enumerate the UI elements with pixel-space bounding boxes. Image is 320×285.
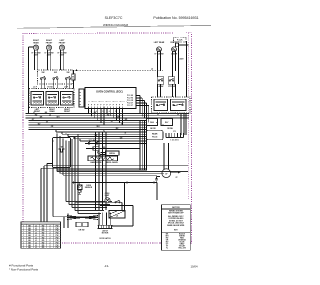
- svg-text:240V: 240V: [34, 54, 39, 57]
- right infinite switch B: [171, 99, 187, 110]
- latch crossing wires: [67, 216, 98, 220]
- svg-text:P1-2 RD: P1-2 RD: [127, 98, 134, 100]
- relay coil symbol: [59, 149, 65, 152]
- element circuit wires: [44, 165, 188, 167]
- svg-text:P1-5 VT: P1-5 VT: [127, 105, 133, 107]
- svg-text:BROIL 3400W: BROIL 3400W: [106, 161, 118, 164]
- svg-text:240V: 240V: [47, 54, 52, 57]
- surface element unit 1 lead wires: [33, 50, 35, 70]
- lamp switch: [115, 202, 116, 203]
- oven control EOC box: [85, 88, 136, 109]
- surface unit switch 1 lower leads: [40, 84, 42, 89]
- right surface element 2: [172, 47, 177, 52]
- oven lamp: [76, 201, 122, 203]
- warmer pilot component: [176, 43, 179, 46]
- svg-text:CF: CF: [175, 177, 177, 179]
- svg-text:P1-3 OR: P1-3 OR: [127, 100, 134, 102]
- svg-text:BK RD: BK RD: [150, 128, 156, 130]
- terminal table header hatch: [21, 222, 61, 225]
- svg-text:WIRING DIAGRAM: WIRING DIAGRAM: [103, 23, 129, 27]
- header rule: [17, 25, 211, 28]
- surface element unit 2 lead wires: [46, 50, 48, 70]
- ground symbol near motor: [156, 177, 158, 180]
- svg-text:L1: L1: [157, 114, 159, 116]
- right junction row: [157, 88, 158, 89]
- svg-text:MOTOR: MOTOR: [102, 233, 109, 235]
- svg-text:REAR: REAR: [49, 110, 55, 113]
- svg-text:OR WH: OR WH: [167, 128, 174, 130]
- door switch component: [76, 222, 81, 227]
- broil element box: [106, 151, 120, 155]
- svg-text:H1 H2: H1 H2: [47, 87, 52, 89]
- right feed wire across top: [75, 69, 164, 71]
- rounded control box: [147, 130, 164, 140]
- legend notice box: [162, 205, 191, 251]
- svg-text:LEFT REAR: LEFT REAR: [154, 41, 165, 44]
- svg-text:SAME GAUGE WIRE.: SAME GAUGE WIRE.: [167, 224, 185, 227]
- motor lead wires: [163, 143, 165, 170]
- center vertical wires to latch assembly: [95, 132, 97, 210]
- latch connector comb: [98, 224, 113, 226]
- EOC bottom pin wires: [88, 109, 90, 114]
- bus junction dots left: [56, 134, 57, 135]
- svg-text:DOOR LATCH: DOOR LATCH: [99, 237, 111, 240]
- svg-text:FRONT: FRONT: [64, 111, 71, 113]
- latch vertical wires: [98, 213, 100, 226]
- right infinite switch A: [154, 99, 168, 110]
- double line break relay box: [147, 119, 158, 126]
- svg-text:L2: L2: [151, 68, 153, 70]
- bus junction dots: [88, 113, 89, 114]
- right surface element 1: [157, 47, 162, 52]
- oven sensor: [79, 183, 81, 186]
- bus staircase step stubs: [55, 130, 57, 132]
- terminal stub wires right of table: [63, 217, 65, 229]
- svg-text:SW: SW: [42, 72, 45, 74]
- svg-text:10/04: 10/04: [191, 264, 198, 268]
- element return wires down to terminal table: [43, 166, 45, 222]
- warmer dashed box: [174, 37, 186, 42]
- svg-text:SENSOR: SENSOR: [85, 187, 93, 189]
- svg-text:BROIL: BROIL: [109, 153, 115, 155]
- svg-text:DR SW: DR SW: [79, 230, 85, 232]
- bake element box: [88, 156, 118, 161]
- svg-text:YELLOW: YELLOW: [178, 247, 186, 249]
- right switch group dashed box: [152, 97, 191, 113]
- svg-text:L2: L2: [177, 114, 179, 116]
- svg-text:REAR: REAR: [33, 41, 39, 44]
- svg-text:2: 2: [50, 247, 51, 249]
- svg-text:REAR: REAR: [152, 132, 158, 135]
- infinite switch block 2: [46, 92, 59, 106]
- convection fan motor: [162, 169, 171, 178]
- EOC bottom pin labels: [88, 106, 90, 108]
- junction diamond on oven wire: [126, 181, 129, 183]
- P3 connector strip: [79, 89, 84, 107]
- svg-text:BAKE 2500W: BAKE 2500W: [91, 161, 102, 164]
- wire bends down to latch: [121, 202, 123, 212]
- EOC inner pin header row: [88, 101, 127, 103]
- svg-text:* Non-Functional Parts: * Non-Functional Parts: [9, 268, 39, 272]
- infinite switch block 3: [61, 92, 74, 106]
- svg-text:3: 3: [102, 111, 103, 113]
- surface element unit 1 coil symbol: [33, 45, 38, 50]
- svg-text:FRONT: FRONT: [46, 42, 53, 44]
- svg-text:Publication No. 5995416931: Publication No. 5995416931: [153, 16, 198, 20]
- latch switch box: [109, 211, 125, 219]
- right switch pair: [157, 77, 163, 84]
- surface element unit 3 coil symbol: [59, 45, 64, 50]
- inner dashed partition line: [187, 33, 189, 200]
- main wiring bus horizontal runs: [26, 113, 190, 115]
- svg-text:L1: L1: [35, 247, 37, 249]
- connector pin block P2: [165, 133, 167, 137]
- relay box 2: [161, 119, 173, 126]
- svg-text:P2: P2: [173, 131, 175, 133]
- surface element unit 2 coil symbol: [46, 45, 51, 50]
- left switch cluster dashed group box: [29, 89, 74, 108]
- svg-text:PW: PW: [56, 247, 59, 249]
- svg-text:PLUG: PLUG: [152, 136, 158, 138]
- maintop dashed border: [23, 33, 192, 243]
- right element lead wires: [156, 51, 158, 77]
- svg-text:SW: SW: [54, 72, 57, 74]
- time delay relay box: [53, 138, 71, 168]
- svg-text:1: 1: [23, 247, 24, 249]
- svg-text:5: 5: [115, 111, 116, 113]
- right vertical wires from bus: [180, 114, 182, 136]
- surface unit switch 3 lower leads: [65, 84, 67, 89]
- left harness vertical wires with staircase bends: [56, 134, 58, 171]
- center vertical wires to bake circuit: [139, 120, 141, 171]
- svg-text:6" 1250W: 6" 1250W: [155, 54, 164, 56]
- svg-text:P-CLK: P-CLK: [177, 40, 183, 42]
- svg-text:FRONT: FRONT: [59, 42, 66, 44]
- svg-text:SLEF3C7C: SLEF3C7C: [105, 16, 123, 20]
- svg-text:-13-: -13-: [104, 264, 109, 268]
- left feed wire L1: [28, 47, 30, 114]
- surface unit switch 2 lower leads: [53, 84, 55, 89]
- pilot vertical wires: [178, 43, 180, 84]
- svg-text:OVEN CONTROL (EOC): OVEN CONTROL (EOC): [96, 90, 123, 93]
- svg-text:240V: 240V: [60, 54, 65, 57]
- terminal board connection table: [21, 222, 61, 249]
- oven circuit wire run with junction diamonds: [74, 182, 158, 184]
- svg-text:TCO BK: TCO BK: [89, 140, 96, 142]
- thermal cutout contact row: [85, 143, 146, 145]
- svg-text:L2: L2: [49, 114, 51, 116]
- svg-text:CTR SW: CTR SW: [168, 86, 175, 88]
- svg-text:SW: SW: [67, 72, 70, 74]
- surface unit switch group dashed box: [38, 70, 74, 84]
- relay contact row 2: [86, 148, 140, 150]
- svg-text:WITH POWER OFF: WITH POWER OFF: [168, 212, 184, 214]
- infinite switch block 1: [31, 92, 44, 106]
- svg-text:1800W: 1800W: [171, 54, 177, 56]
- surface element unit 3 lead wires: [59, 50, 61, 70]
- svg-text:P1-1 BK: P1-1 BK: [127, 95, 134, 97]
- fuse component below L2 feed: [72, 74, 75, 80]
- svg-text:1 2 3 4 5 6: 1 2 3 4 5 6: [170, 139, 178, 142]
